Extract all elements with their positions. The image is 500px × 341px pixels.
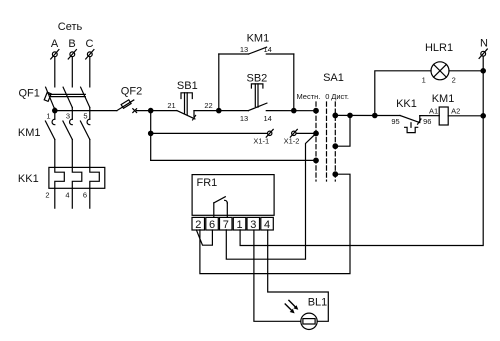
svg-text:96: 96	[423, 117, 431, 126]
wire SA1 dist bottom to FR1-2	[200, 174, 350, 273]
svg-text:A1: A1	[429, 106, 438, 115]
svg-text:BL1: BL1	[308, 297, 328, 309]
svg-text:FR1: FR1	[197, 177, 218, 189]
pin 2	[45, 191, 49, 200]
wire lamp branch	[375, 71, 431, 116]
svg-text:13: 13	[240, 45, 248, 54]
svg-text:1: 1	[236, 219, 242, 231]
node SA1 dist top	[333, 113, 338, 118]
node coil to N	[481, 114, 485, 118]
svg-text:1: 1	[46, 112, 50, 121]
node lamp to N	[481, 69, 485, 73]
node X1-1 branch	[149, 131, 153, 135]
wire FR1-3 to BL1	[254, 230, 301, 321]
node bridge right	[292, 108, 296, 112]
svg-text:N: N	[480, 38, 488, 50]
thermal relay KK1 heaters	[18, 167, 105, 208]
svg-text:7: 7	[223, 219, 229, 231]
svg-text:6: 6	[209, 219, 215, 231]
svg-text:0: 0	[325, 92, 329, 101]
node SA1 local mid	[314, 131, 319, 136]
svg-text:QF2: QF2	[121, 85, 142, 97]
svg-text:B: B	[68, 38, 75, 50]
wire SA1 local mid to FR1-7	[226, 133, 316, 259]
node dist drop	[348, 113, 352, 117]
svg-text:1: 1	[422, 76, 426, 85]
terminal X1-2	[284, 129, 300, 145]
coil KM1	[429, 93, 483, 125]
breaker QF1	[19, 87, 90, 119]
wire local bottom to SA1	[151, 159, 316, 161]
pushbutton SB2	[240, 73, 272, 124]
wire SA1 dist rail	[335, 114, 400, 116]
wire control rail left	[55, 110, 117, 112]
svg-text:KK1: KK1	[18, 173, 39, 185]
svg-text:SA1: SA1	[323, 72, 344, 84]
svg-text:C: C	[86, 38, 94, 50]
svg-text:2: 2	[195, 219, 201, 231]
node local tap	[149, 108, 153, 112]
svg-text:4: 4	[65, 191, 69, 200]
relay FR1	[192, 175, 274, 218]
photo sensor BL1	[285, 297, 327, 330]
selector switch SA1	[296, 72, 349, 181]
wire phase C drop	[89, 57, 91, 87]
node SA1 dist mid	[333, 144, 338, 149]
svg-text:SB2: SB2	[247, 73, 268, 85]
svg-text:3: 3	[66, 112, 70, 121]
pushbutton SB1	[167, 80, 212, 120]
svg-text:Дист.: Дист.	[331, 92, 349, 101]
svg-text:X1-1: X1-1	[253, 137, 269, 146]
wire local tap drop	[150, 111, 152, 161]
auxiliary contact KM1 bridge	[219, 33, 294, 111]
svg-text:14: 14	[264, 114, 272, 123]
node SA1 local bottom	[314, 158, 319, 163]
pin 5	[83, 112, 87, 121]
wire KK1 to coil	[420, 115, 439, 117]
terminal N	[479, 38, 488, 59]
svg-text:13: 13	[240, 114, 248, 123]
contactor KM1 main contacts	[18, 119, 90, 167]
svg-text:A2: A2	[451, 106, 460, 115]
node SA1 dist bottom	[333, 172, 338, 177]
svg-text:A: A	[51, 38, 59, 50]
node phase A tap	[53, 108, 57, 112]
svg-text:Местн.: Местн.	[296, 92, 320, 101]
svg-text:3: 3	[250, 219, 256, 231]
pin 4	[65, 191, 69, 200]
node lamp branch	[373, 113, 377, 117]
label Сеть	[58, 21, 83, 33]
terminal C	[86, 38, 94, 59]
svg-text:2: 2	[452, 76, 456, 85]
svg-text:95: 95	[391, 117, 399, 126]
breaker QF2	[117, 85, 142, 112]
lamp HLR1	[422, 42, 484, 85]
thermal contact KK1	[391, 98, 431, 133]
wire dist mid link	[335, 115, 350, 146]
svg-text:KM1: KM1	[432, 93, 455, 105]
wire rail SB2 to SA1	[266, 110, 316, 112]
pin 1	[46, 112, 50, 121]
svg-text:KM1: KM1	[18, 127, 41, 139]
wire to X1-1	[151, 132, 268, 134]
svg-text:HLR1: HLR1	[425, 42, 453, 54]
wire phase A drop	[54, 57, 56, 87]
node SA1 local top	[314, 108, 319, 113]
terminal A	[51, 38, 59, 59]
svg-text:21: 21	[167, 101, 175, 110]
wire phase B drop	[71, 57, 73, 87]
pin 6	[83, 191, 87, 200]
wire rail QF2 to SB1	[137, 110, 177, 112]
wire rail SB1 to SB2	[194, 110, 248, 112]
terminal row FR1	[192, 217, 273, 231]
terminal X1-1	[253, 129, 273, 145]
svg-text:4: 4	[264, 219, 270, 231]
terminal B	[68, 38, 76, 59]
svg-text:X1-2: X1-2	[284, 137, 300, 146]
wire jumper 2-6	[196, 230, 212, 245]
wire X1-2 to SA1	[296, 132, 316, 134]
node bridge left	[217, 108, 221, 112]
wire neutral	[240, 56, 483, 245]
svg-text:6: 6	[83, 191, 87, 200]
svg-text:14: 14	[264, 45, 272, 54]
svg-text:QF1: QF1	[19, 88, 40, 100]
svg-text:5: 5	[83, 112, 87, 121]
svg-text:SB1: SB1	[177, 80, 198, 92]
pin 3	[66, 112, 70, 121]
svg-text:22: 22	[204, 101, 212, 110]
svg-text:Сеть: Сеть	[58, 21, 83, 33]
wire FR1-4 to BL1	[268, 230, 329, 321]
svg-text:KM1: KM1	[247, 33, 270, 45]
svg-text:KK1: KK1	[396, 98, 417, 110]
svg-text:2: 2	[45, 191, 49, 200]
